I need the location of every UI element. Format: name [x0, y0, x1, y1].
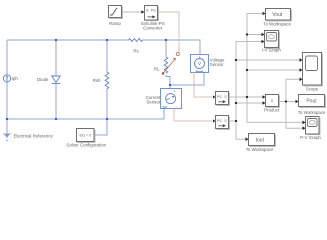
wire: bottom rail [7, 118, 164, 120]
svg-text:Solver Configuration: Solver Configuration [66, 143, 106, 148]
svg-text:Scope: Scope [306, 86, 319, 91]
PS-Simulink converter 1 [216, 92, 229, 105]
Pout To Workspace block [299, 95, 325, 107]
wire: top rail left of Rs [7, 39, 129, 41]
svg-text:f(x) = 0: f(x) = 0 [80, 134, 92, 138]
signal arrowheads [141, 10, 305, 141]
voltage sensor block [191, 55, 209, 73]
svg-text:PS: PS [217, 95, 222, 99]
wire: diode branch [55, 40, 57, 119]
current sensor block [161, 89, 182, 109]
svg-text:P-V Graph: P-V Graph [300, 135, 321, 140]
svg-text:V: V [198, 61, 201, 66]
svg-text:+: + [199, 55, 201, 59]
wire: V to Scope input 2 [247, 69, 300, 71]
wire: Product output to Pout [279, 101, 296, 103]
Vout To Workspace block [266, 9, 291, 21]
svg-text:PS: PS [151, 8, 157, 12]
svg-text:PS: PS [217, 119, 222, 123]
svg-text:Product: Product [264, 108, 280, 113]
Solver Configuration block [77, 129, 95, 142]
svg-text:Iout: Iout [256, 137, 265, 143]
physical signal: Simulink-PS converter to RL port [158, 12, 180, 52]
wire: P branch up to Scope input 3 [286, 79, 300, 101]
physical signal: voltage sensor output to PS-S converter 1 [194, 73, 213, 98]
junction dots (blue) [6, 39, 171, 120]
resistor Rsh [105, 72, 109, 89]
svg-text:Rsh: Rsh [93, 78, 101, 83]
svg-text:RL: RL [154, 66, 160, 71]
wire: mid junction to voltage sensor bottom [170, 73, 204, 86]
wire: top rail right of Rs, drop to voltage sensor [142, 40, 200, 55]
Iout To Workspace block [249, 134, 275, 146]
resistor RL (variable load) [164, 57, 167, 73]
wire: solver configuration link [94, 119, 107, 135]
svg-text:×: × [270, 99, 273, 105]
wire: Ramp to Simulink-PS converter [122, 11, 142, 13]
wire: PS-S converter 1 output to Product input 1 [229, 96, 263, 98]
wire: V to I-V graph input 1 [247, 34, 262, 36]
physical signal: current sensor output to PS-S converter 2 [174, 109, 213, 122]
P-V Graph block [306, 117, 320, 135]
svg-text:Sensor: Sensor [210, 62, 224, 67]
wire: V bus vertical with top run to Vout [247, 14, 262, 123]
svg-text:Rs: Rs [133, 48, 139, 53]
wire: P branch down to P-V graph input 2 [286, 102, 303, 129]
svg-text:To Workspace: To Workspace [263, 22, 291, 27]
wire: left rail (Iph branch) [6, 40, 8, 119]
wire: I bus vertical with top run to I-V graph input 2 [236, 42, 262, 140]
svg-text:Pout: Pout [306, 99, 317, 105]
wire: PS-S converter 2 output joining I bus [229, 120, 237, 122]
Simulink-PS converter block [145, 6, 158, 21]
svg-text:Vout: Vout [272, 12, 283, 18]
svg-text:Converter: Converter [143, 26, 163, 31]
svg-text:Ramp: Ramp [109, 21, 121, 26]
I-V Graph block [265, 31, 279, 48]
svg-text:To Workspace: To Workspace [246, 147, 274, 152]
diode D [52, 76, 61, 83]
wire: V bus bottom to P-V graph input 1 [247, 121, 303, 123]
junction dots (signal) [235, 33, 287, 122]
svg-text:-: - [205, 69, 206, 73]
wire: current sensor bottom to rail [163, 109, 165, 120]
Product block [266, 95, 279, 107]
current source Iph [3, 75, 10, 82]
svg-text:Iph: Iph [12, 76, 19, 81]
svg-text:Diode: Diode [37, 77, 49, 82]
svg-text:-: - [176, 105, 177, 109]
Ramp block [109, 6, 122, 18]
svg-text:Electrical Reference: Electrical Reference [14, 133, 54, 138]
variable resistor arrow on RL [163, 52, 179, 73]
wire: I to Scope input 1 [236, 59, 300, 61]
Scope block [303, 53, 322, 86]
wire: I to Product input 2 [236, 102, 263, 104]
PS-Simulink converter 2 [216, 116, 229, 129]
svg-text:I-V Graph: I-V Graph [262, 48, 282, 53]
wire: ground stem [6, 119, 8, 134]
wire: RL branch with jog to junction [166, 40, 170, 85]
ground (electrical reference) [2, 134, 12, 139]
wire: Rsh branch [106, 40, 108, 119]
block shadows [78, 7, 326, 147]
svg-text:To Workspace: To Workspace [298, 110, 326, 115]
wire: junction down to current sensor top [169, 85, 171, 89]
resistor Rs [129, 39, 143, 42]
svg-text:+: + [174, 90, 176, 94]
svg-text:Sensor: Sensor [146, 99, 160, 104]
wire: I bus bottom to Iout [236, 138, 246, 140]
